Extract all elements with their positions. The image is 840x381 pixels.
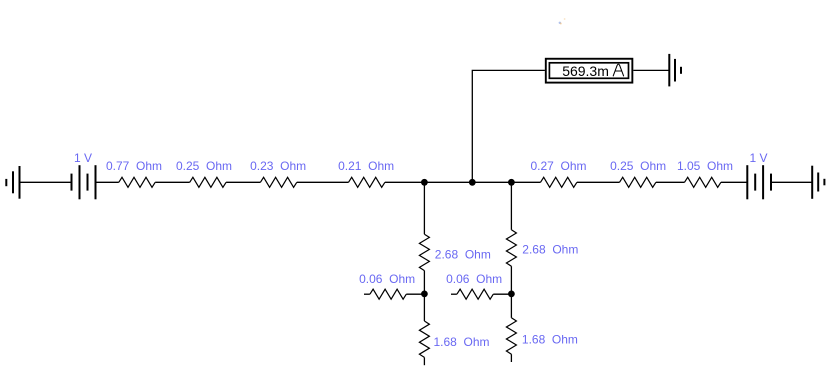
svg-text:1 V: 1 V [74,151,92,165]
svg-text:2.68 Ohm: 2.68 Ohm [435,248,491,262]
svg-text:1.05 Ohm: 1.05 Ohm [677,159,733,173]
svg-text:1.68 Ohm: 1.68 Ohm [434,335,490,349]
svg-text:0.21 Ohm: 0.21 Ohm [338,159,394,173]
svg-text:0.25 Ohm: 0.25 Ohm [176,159,232,173]
svg-text:0.06 Ohm: 0.06 Ohm [446,272,502,286]
svg-text:569.3m: 569.3m [562,63,609,79]
svg-text:2.68 Ohm: 2.68 Ohm [522,242,578,256]
svg-text:0.27 Ohm: 0.27 Ohm [531,159,587,173]
svg-text:0.77 Ohm: 0.77 Ohm [106,159,162,173]
svg-text:0.23 Ohm: 0.23 Ohm [250,159,306,173]
svg-text:1 V: 1 V [750,151,768,165]
svg-text:0.25 Ohm: 0.25 Ohm [610,159,666,173]
svg-text:1.68 Ohm: 1.68 Ohm [522,333,578,347]
svg-text:0.06 Ohm: 0.06 Ohm [359,272,415,286]
